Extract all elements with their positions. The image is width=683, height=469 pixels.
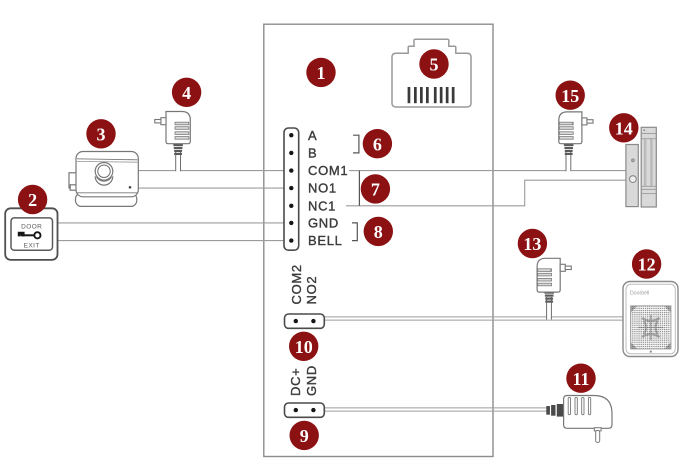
- power supply (11) barrel: [546, 404, 563, 417]
- svg-text:4: 4: [182, 83, 191, 103]
- doorbell grille: [631, 306, 672, 349]
- badge 7: [361, 174, 390, 203]
- power adapter (15) cable: [566, 150, 571, 171]
- power adapter (13) coil: [544, 292, 554, 303]
- power adapter (4) coil: [173, 144, 183, 155]
- badge 15: [556, 81, 585, 110]
- maglock (14) armature plate: [626, 145, 638, 207]
- power adapter (13) prong: [560, 264, 565, 271]
- svg-text:1: 1: [317, 63, 326, 83]
- svg-text:DOOR: DOOR: [21, 223, 42, 230]
- bracket for A/B group: [353, 135, 359, 153]
- power adapter (13) vents: [538, 269, 552, 286]
- power adapter (4) cable: [175, 150, 180, 171]
- power adapter (15) coil: [564, 144, 574, 155]
- svg-text:5: 5: [430, 55, 439, 75]
- svg-text:B: B: [308, 146, 317, 161]
- electric lock (3) latch: [69, 173, 77, 188]
- wire exit button to GND: [58, 222, 292, 224]
- svg-text:NC1: NC1: [308, 198, 336, 213]
- wire exit button to BELL: [58, 240, 292, 242]
- svg-text:BELL: BELL: [308, 233, 343, 248]
- svg-text:9: 9: [300, 426, 309, 446]
- power adapter (15) body: [559, 112, 582, 144]
- badge 10: [289, 332, 318, 361]
- badge 14: [609, 113, 638, 142]
- svg-text:NO1: NO1: [308, 181, 337, 196]
- badge 12: [632, 249, 661, 278]
- power adapter (4) body: [166, 112, 190, 144]
- badge 2: [18, 185, 47, 214]
- power supply (11) prong: [594, 428, 601, 431]
- badge 13: [518, 229, 547, 258]
- svg-text:15: 15: [561, 86, 579, 106]
- svg-text:11: 11: [572, 369, 589, 389]
- electric lock (3) body: [76, 152, 138, 197]
- bracket for COM1/NO1/NC1 group: [358, 171, 360, 206]
- svg-text:2: 2: [28, 190, 37, 210]
- power adapter (15) prong: [582, 118, 587, 125]
- badge 4: [172, 78, 201, 107]
- badge 5: [419, 49, 448, 78]
- svg-text:10: 10: [295, 337, 313, 357]
- svg-text:COM1: COM1: [308, 163, 348, 178]
- lock cylinder: [95, 176, 113, 185]
- exit button S1: [5, 208, 57, 260]
- electric lock (3) bottom lip: [76, 193, 137, 206]
- power adapter (13) body: [537, 258, 560, 292]
- badge 9: [290, 421, 319, 450]
- RJ45 jack J1: [392, 39, 471, 107]
- svg-text:EXIT: EXIT: [24, 242, 40, 249]
- doorbell (12): [623, 282, 678, 357]
- wire NC1 to maglock: [346, 180, 626, 206]
- bracket for GND/BELL group: [352, 223, 357, 241]
- power supply (11) vents: [568, 397, 591, 414]
- svg-text:3: 3: [97, 124, 106, 144]
- key icon: [21, 232, 41, 238]
- svg-text:8: 8: [374, 222, 383, 242]
- terminal block COM2/NO2: [285, 314, 325, 328]
- svg-text:14: 14: [615, 118, 633, 138]
- svg-text:13: 13: [523, 234, 541, 254]
- power supply (11) body: [564, 396, 612, 429]
- power adapter (4) prong: [161, 118, 166, 125]
- wire lock to NO1: [138, 187, 291, 189]
- main controller box U1: [264, 24, 493, 456]
- svg-text:6: 6: [373, 134, 382, 154]
- terminal block DC+/GND: [285, 403, 325, 417]
- cable COM2/NO2 to doorbell: [324, 317, 623, 320]
- wire COM1 to maglock: [349, 170, 626, 172]
- svg-text:GND: GND: [304, 365, 319, 396]
- svg-text:A: A: [308, 128, 317, 143]
- RJ45 pins: [408, 87, 455, 103]
- wire lock to COM1: [138, 170, 291, 172]
- svg-text:COM2: COM2: [289, 264, 304, 304]
- svg-text:7: 7: [371, 180, 380, 200]
- terminal block TB1: [284, 128, 299, 250]
- svg-text:DC+: DC+: [288, 368, 303, 396]
- svg-text:Doorbell: Doorbell: [630, 291, 649, 297]
- cable DC+/GND to power supply: [324, 408, 548, 411]
- power adapter (15) vents: [559, 122, 573, 139]
- power adapter (13) cable: [546, 297, 551, 320]
- badge 11: [566, 364, 595, 393]
- badge 3: [86, 119, 115, 148]
- power adapter (4) vents: [175, 122, 189, 139]
- svg-text:12: 12: [638, 255, 656, 275]
- badge 6: [363, 129, 392, 158]
- badge 8: [364, 217, 393, 246]
- svg-text:GND: GND: [308, 216, 339, 231]
- badge 1: [306, 58, 335, 87]
- svg-text:NO2: NO2: [304, 276, 319, 305]
- TB1 pin dots: [289, 133, 293, 243]
- maglock (14) magnet body: [641, 127, 656, 207]
